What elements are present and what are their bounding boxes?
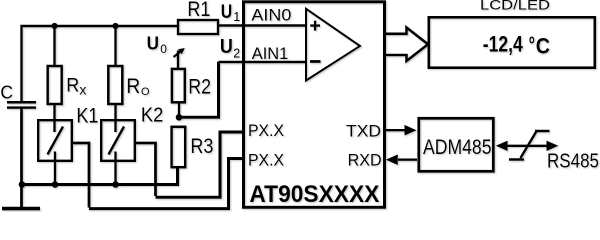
svg-text:TXD: TXD xyxy=(346,121,381,140)
svg-text:O: O xyxy=(141,86,150,98)
svg-text:AIN1: AIN1 xyxy=(252,44,288,63)
svg-text:AIN0: AIN0 xyxy=(251,6,291,25)
svg-text:R3: R3 xyxy=(190,135,213,158)
svg-text:RS485: RS485 xyxy=(547,151,599,173)
svg-text:2: 2 xyxy=(233,47,240,61)
svg-text:R: R xyxy=(66,75,79,97)
svg-text:x: x xyxy=(79,82,86,98)
svg-text:ADM485: ADM485 xyxy=(423,135,492,159)
svg-text:RXD: RXD xyxy=(348,151,382,170)
svg-text:R1: R1 xyxy=(187,0,210,21)
svg-text:C: C xyxy=(536,34,550,59)
svg-text:LCD/LED: LCD/LED xyxy=(480,0,550,13)
svg-text:K2: K2 xyxy=(141,104,164,126)
svg-text:PX.X: PX.X xyxy=(248,152,284,170)
svg-text:1: 1 xyxy=(233,10,240,24)
svg-text:-12,4: -12,4 xyxy=(483,31,524,56)
svg-text:0: 0 xyxy=(160,42,167,56)
svg-text:AT90SXXXX: AT90SXXXX xyxy=(249,181,379,208)
svg-text:PX.X: PX.X xyxy=(248,122,284,140)
svg-text:K1: K1 xyxy=(76,104,98,127)
svg-text:°: ° xyxy=(529,32,535,57)
svg-text:U: U xyxy=(221,1,233,23)
svg-text:U: U xyxy=(220,36,233,58)
svg-text:R2: R2 xyxy=(188,75,211,99)
svg-text:R: R xyxy=(126,75,140,98)
svg-text:U: U xyxy=(147,32,159,53)
svg-text:C: C xyxy=(0,83,13,103)
